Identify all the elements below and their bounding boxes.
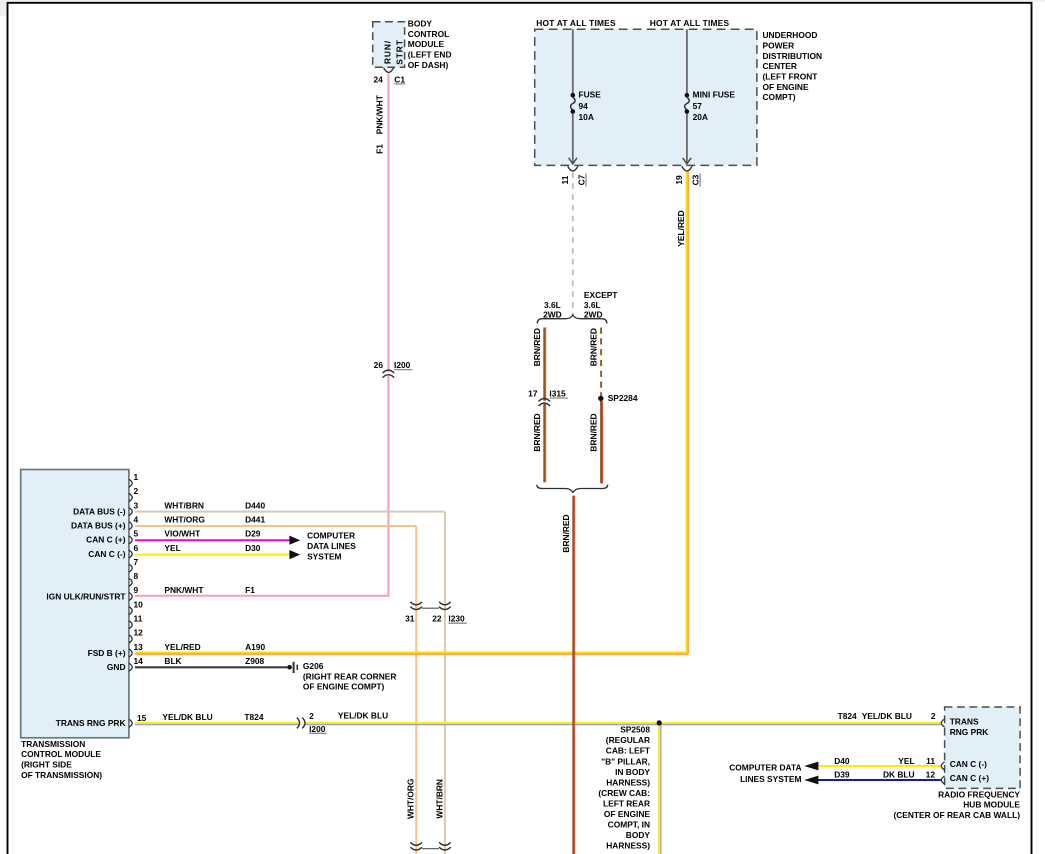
svg-text:10: 10 — [134, 599, 144, 609]
svg-text:COMPT): COMPT) — [763, 92, 796, 102]
svg-text:YEL/RED: YEL/RED — [676, 210, 686, 246]
svg-text:F1: F1 — [374, 144, 384, 154]
svg-text:CONTROL MODULE: CONTROL MODULE — [21, 749, 101, 759]
wire BLK Z908 from TCM pin 14 to ground — [135, 666, 287, 668]
svg-text:(LEFT FRONT: (LEFT FRONT — [763, 72, 819, 82]
svg-text:"B" PILLAR,: "B" PILLAR, — [601, 756, 650, 766]
RF hub pin 12 arc — [941, 776, 944, 784]
svg-text:DK BLU: DK BLU — [883, 769, 915, 779]
svg-text:BRN/RED: BRN/RED — [561, 514, 571, 552]
svg-text:VIO/WHT: VIO/WHT — [164, 529, 201, 539]
svg-text:BRN/RED: BRN/RED — [532, 328, 542, 366]
svg-text:Z908: Z908 — [245, 656, 264, 666]
svg-text:CONTROL: CONTROL — [408, 29, 449, 39]
underhood power distribution center box — [535, 29, 757, 165]
svg-text:57: 57 — [693, 101, 703, 111]
svg-text:C3: C3 — [691, 174, 701, 185]
wire F1 PNK/WHT vertical from BCM pin 24 — [387, 74, 389, 373]
body control module box — [373, 22, 405, 67]
svg-text:OF ENGINE: OF ENGINE — [604, 809, 650, 819]
svg-text:CAN C (-): CAN C (-) — [950, 759, 987, 769]
svg-text:CAB: LEFT: CAB: LEFT — [606, 746, 651, 756]
wire YEL/DK BLU T824 from TCM pin 15 — [135, 722, 299, 724]
svg-text:I200: I200 — [394, 360, 411, 370]
svg-text:COMPT, IN: COMPT, IN — [608, 820, 650, 830]
svg-text:10A: 10A — [579, 112, 594, 122]
svg-text:D30: D30 — [245, 543, 261, 553]
svg-text:22: 22 — [432, 614, 442, 624]
svg-text:I200: I200 — [309, 724, 326, 734]
connector C3 arc below PDC — [682, 166, 692, 171]
svg-text:CAN C (+): CAN C (+) — [950, 773, 990, 783]
svg-text:BLK: BLK — [164, 656, 181, 666]
wire WHT/ORG vertical — [415, 526, 417, 854]
svg-text:(RIGHT SIDE: (RIGHT SIDE — [21, 760, 72, 770]
arrow from RF hub CAN C (-) D40 — [804, 762, 818, 771]
svg-text:A190: A190 — [245, 642, 265, 652]
svg-text:CAN C (-): CAN C (-) — [88, 549, 125, 559]
svg-text:YEL: YEL — [164, 543, 180, 553]
svg-text:LEFT REAR: LEFT REAR — [603, 798, 650, 808]
border frame — [7, 2, 9, 854]
svg-text:11: 11 — [560, 175, 570, 184]
svg-text:RUN/: RUN/ — [382, 40, 392, 64]
svg-text:OF ENGINE: OF ENGINE — [763, 82, 809, 92]
svg-text:SP2284: SP2284 — [608, 393, 638, 403]
wire YEL/RED vertical from mini fuse C3 — [686, 172, 688, 654]
svg-text:2: 2 — [309, 711, 314, 721]
wire WHT/BRN vertical — [444, 512, 446, 854]
svg-text:19: 19 — [674, 175, 684, 185]
svg-text:YEL/RED: YEL/RED — [164, 642, 200, 652]
svg-text:C1: C1 — [394, 74, 405, 84]
svg-text:OF DASH): OF DASH) — [408, 60, 449, 70]
wire YEL/RED A190 from TCM pin 13 — [135, 652, 688, 654]
svg-text:MODULE: MODULE — [408, 39, 445, 49]
RF hub pin 2 arc — [941, 719, 944, 727]
svg-text:OF ENGINE COMPT): OF ENGINE COMPT) — [303, 682, 385, 692]
svg-text:POWER: POWER — [763, 40, 795, 50]
wire WHT/BRN D440 from TCM pin 3 — [135, 511, 445, 513]
wire D40 YEL from RF hub pin 11 — [818, 765, 941, 767]
svg-text:5: 5 — [134, 529, 139, 539]
svg-text:17: 17 — [528, 389, 538, 399]
svg-text:BRN/RED: BRN/RED — [589, 328, 599, 366]
svg-text:12: 12 — [134, 628, 144, 638]
svg-text:DATA BUS (+): DATA BUS (+) — [71, 521, 126, 531]
svg-text:LINES SYSTEM: LINES SYSTEM — [740, 774, 801, 784]
svg-text:1: 1 — [134, 472, 139, 482]
svg-text:YEL/DK BLU: YEL/DK BLU — [862, 711, 912, 721]
svg-text:YEL: YEL — [898, 756, 914, 766]
svg-text:94: 94 — [579, 101, 589, 111]
svg-text:2: 2 — [931, 711, 936, 721]
svg-text:HOT AT ALL TIMES: HOT AT ALL TIMES — [650, 18, 730, 28]
ground G206 symbol — [287, 665, 292, 670]
inline connector I200 pin 2 on YEL/DK BLU wire — [297, 718, 300, 729]
svg-text:2WD: 2WD — [543, 310, 562, 320]
arrow from RF hub CAN C (+) D39 — [804, 776, 818, 785]
svg-text:9: 9 — [134, 585, 139, 595]
svg-text:D440: D440 — [245, 500, 265, 510]
svg-text:HARNESS): HARNESS) — [606, 841, 650, 851]
svg-text:I315: I315 — [549, 389, 566, 399]
svg-text:PNK/WHT: PNK/WHT — [374, 94, 384, 134]
inline connector I230 pins 31 and 22 — [410, 602, 422, 605]
fuse 94 output arrow — [569, 158, 577, 164]
svg-text:I230: I230 — [448, 614, 465, 624]
svg-text:2: 2 — [134, 486, 139, 496]
arrow to computer data lines system (CAN C -) — [289, 550, 300, 559]
svg-text:SP2508: SP2508 — [620, 725, 650, 735]
svg-text:15: 15 — [137, 713, 147, 723]
connector C7 arc below PDC — [568, 166, 578, 171]
mini fuse 57 leads — [686, 29, 688, 93]
mini fuse 57 output arrow — [683, 158, 691, 164]
svg-text:YEL/DK BLU: YEL/DK BLU — [162, 712, 212, 722]
inline connector I200 pin 26 on PNK/WHT wire — [383, 370, 395, 373]
svg-text:BODY: BODY — [626, 830, 651, 840]
svg-text:(CREW CAB:: (CREW CAB: — [598, 788, 650, 798]
svg-text:WHT/ORG: WHT/ORG — [164, 514, 204, 524]
svg-text:OF TRANSMISSION): OF TRANSMISSION) — [21, 770, 102, 780]
svg-text:YEL/DK BLU: YEL/DK BLU — [338, 711, 388, 721]
svg-text:G206: G206 — [303, 661, 324, 671]
svg-text:STRT: STRT — [394, 39, 404, 64]
inline connector at page bottom on WHT/BRN — [439, 842, 451, 845]
svg-text:FUSE: FUSE — [579, 90, 602, 100]
svg-text:D40: D40 — [834, 756, 850, 766]
svg-text:CAN C (+): CAN C (+) — [86, 535, 126, 545]
mini fuse 57 20A symbol — [685, 93, 690, 98]
RF hub pin 11 arc — [941, 762, 944, 770]
svg-text:12: 12 — [926, 769, 936, 779]
svg-text:D441: D441 — [245, 514, 265, 524]
svg-text:F1: F1 — [245, 585, 255, 595]
svg-text:24: 24 — [373, 74, 383, 84]
svg-text:(REGULAR: (REGULAR — [606, 735, 650, 745]
svg-text:D39: D39 — [834, 769, 850, 779]
brace merging branches — [537, 485, 608, 493]
transmission control module box U1 — [21, 470, 129, 738]
inline connector I315 pin 17 on BRN/RED wire — [539, 399, 551, 402]
svg-text:BODY: BODY — [408, 19, 433, 29]
wire BRN/RED dashed right branch (EXCEPT 3.6L 2WD) — [600, 328, 602, 397]
svg-text:DATA BUS (-): DATA BUS (-) — [73, 506, 126, 516]
svg-text:HARNESS): HARNESS) — [606, 777, 650, 787]
svg-text:7: 7 — [134, 557, 139, 567]
svg-text:3: 3 — [134, 500, 139, 510]
svg-text:(CENTER OF REAR CAB WALL): (CENTER OF REAR CAB WALL) — [893, 810, 1020, 820]
svg-text:(LEFT END: (LEFT END — [408, 49, 452, 59]
wire BRN/RED left branch (3.6L 2WD) — [543, 328, 545, 401]
brace splitting into 3.6L 2WD / EXCEPT branches — [537, 315, 607, 324]
radio frequency hub module box — [945, 707, 1021, 788]
svg-text:SYSTEM: SYSTEM — [307, 552, 341, 562]
svg-text:D29: D29 — [245, 529, 261, 539]
svg-text:TRANSMISSION: TRANSMISSION — [21, 739, 85, 749]
svg-text:CENTER: CENTER — [763, 61, 797, 71]
svg-text:UNDERHOOD: UNDERHOOD — [763, 30, 818, 40]
svg-text:RADIO FREQUENCY: RADIO FREQUENCY — [938, 789, 1020, 799]
svg-text:BRN/RED: BRN/RED — [589, 413, 599, 451]
TCM pin arcs 1-15 — [129, 479, 132, 487]
svg-text:T824: T824 — [838, 711, 857, 721]
svg-text:3.6L: 3.6L — [544, 300, 561, 310]
splice SP2508 — [657, 720, 662, 725]
svg-text:2WD: 2WD — [584, 310, 603, 320]
svg-text:COMPUTER: COMPUTER — [307, 531, 355, 541]
fuse 94 leads — [572, 29, 574, 93]
svg-text:TRANS: TRANS — [950, 717, 979, 727]
wire YEL D30 from TCM pin 6 — [135, 554, 290, 556]
svg-text:26: 26 — [374, 360, 384, 370]
wire BRN/RED merged, to page bottom — [572, 496, 574, 854]
BCM pin 24 connector arc — [384, 68, 394, 73]
svg-text:COMPUTER DATA: COMPUTER DATA — [729, 762, 801, 772]
svg-text:DISTRIBUTION: DISTRIBUTION — [763, 51, 823, 61]
splice SP2284 — [598, 396, 603, 401]
svg-text:(RIGHT REAR CORNER: (RIGHT REAR CORNER — [303, 671, 397, 681]
svg-text:4: 4 — [134, 514, 139, 524]
svg-text:RNG PRK: RNG PRK — [950, 727, 989, 737]
arrow to computer data lines system (CAN C +) — [289, 536, 300, 545]
svg-text:TRANS RNG PRK: TRANS RNG PRK — [56, 718, 126, 728]
svg-text:PNK/WHT: PNK/WHT — [164, 585, 204, 595]
svg-text:HOT AT ALL TIMES: HOT AT ALL TIMES — [536, 18, 616, 28]
svg-text:13: 13 — [134, 642, 144, 652]
svg-text:11: 11 — [134, 614, 143, 624]
svg-text:BRN/RED: BRN/RED — [532, 413, 542, 451]
svg-text:WHT/BRN: WHT/BRN — [164, 500, 204, 510]
svg-text:14: 14 — [134, 656, 144, 666]
svg-text:C7: C7 — [577, 174, 587, 185]
wire WHT/ORG D441 from TCM pin 4 — [135, 525, 416, 527]
svg-text:11: 11 — [926, 756, 935, 766]
svg-text:EXCEPT: EXCEPT — [584, 290, 618, 300]
svg-text:GND: GND — [107, 662, 126, 672]
svg-text:8: 8 — [134, 571, 139, 581]
svg-text:FSD B (+): FSD B (+) — [88, 648, 126, 658]
fuse 94 10A symbol — [571, 93, 576, 98]
svg-text:31: 31 — [405, 614, 415, 624]
wire YEL/DK BLU branch below splice SP2508 — [658, 723, 660, 854]
svg-text:IN BODY: IN BODY — [615, 767, 650, 777]
svg-text:T824: T824 — [244, 712, 263, 722]
svg-text:DATA LINES: DATA LINES — [307, 541, 356, 551]
wire VIO/WHT D29 from TCM pin 5 — [135, 539, 290, 541]
svg-text:WHT/BRN: WHT/BRN — [434, 779, 444, 819]
wire D39 DK BLU from RF hub pin 12 — [818, 779, 941, 781]
wire PNK/WHT horizontal to TCM pin 9 — [135, 595, 389, 597]
svg-text:3.6L: 3.6L — [584, 300, 601, 310]
svg-text:HUB MODULE: HUB MODULE — [963, 800, 1020, 810]
wire BRN/RED below splice SP2284 — [600, 401, 602, 483]
svg-text:MINI FUSE: MINI FUSE — [693, 90, 736, 100]
svg-text:IGN ULK/RUN/STRT: IGN ULK/RUN/STRT — [46, 591, 126, 601]
svg-text:WHT/ORG: WHT/ORG — [406, 779, 416, 819]
svg-text:20A: 20A — [693, 112, 708, 122]
svg-text:6: 6 — [134, 543, 139, 553]
inline connector at page bottom on WHT/ORG — [410, 842, 422, 845]
dashed wire from connector C7 — [572, 173, 574, 316]
